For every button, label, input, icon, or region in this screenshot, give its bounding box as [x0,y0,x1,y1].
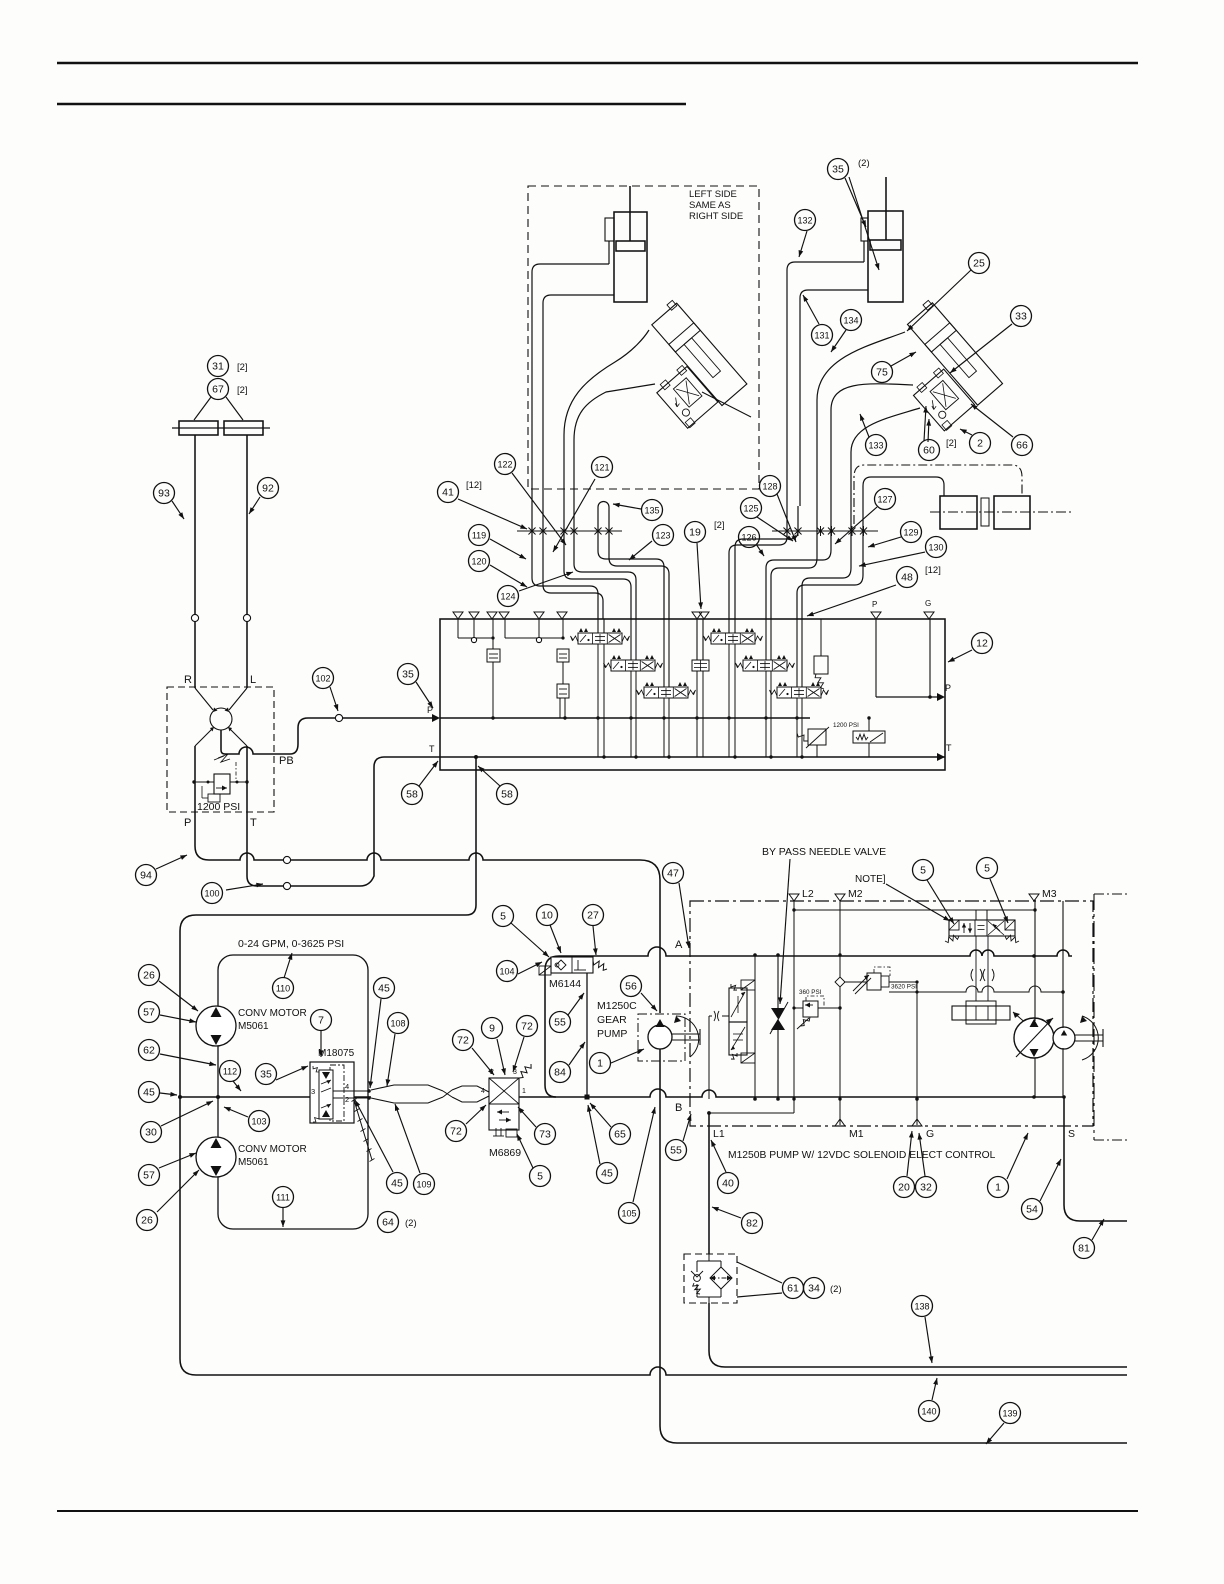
svg-text:L: L [250,674,256,686]
svg-text:67: 67 [212,383,224,395]
svg-text:1200 PSI: 1200 PSI [197,801,240,813]
svg-text:34: 34 [808,1282,820,1294]
svg-text:48: 48 [901,571,913,583]
svg-text:CONV MOTOR: CONV MOTOR [238,1144,307,1155]
svg-text:45: 45 [601,1167,613,1179]
svg-text:135: 135 [644,505,659,515]
svg-text:54: 54 [1026,1203,1038,1215]
svg-text:A: A [675,939,683,951]
svg-text:121: 121 [594,462,609,472]
svg-text:84: 84 [554,1066,566,1078]
svg-text:72: 72 [450,1125,462,1137]
svg-text:G: G [925,599,931,608]
svg-text:M5061: M5061 [238,1021,269,1032]
svg-text:35: 35 [260,1068,272,1080]
svg-text:T: T [429,744,435,754]
svg-text:138: 138 [914,1301,929,1311]
svg-text:35: 35 [402,668,414,680]
svg-text:M5061: M5061 [238,1157,269,1168]
svg-text:P: P [184,817,191,829]
svg-text:62: 62 [143,1044,155,1056]
svg-text:105: 105 [621,1208,636,1218]
svg-text:56: 56 [625,980,637,992]
svg-text:2: 2 [977,437,983,449]
svg-text:55: 55 [554,1016,566,1028]
svg-text:M2: M2 [848,888,863,900]
svg-text:119: 119 [472,530,486,540]
svg-text:[12]: [12] [925,565,941,576]
svg-text:9: 9 [489,1022,495,1034]
svg-text:73: 73 [539,1128,551,1140]
svg-text:1200 PSI: 1200 PSI [833,722,859,729]
svg-text:M18075: M18075 [318,1048,355,1059]
svg-text:45: 45 [143,1086,155,1098]
svg-text:104: 104 [499,966,514,976]
svg-text:10: 10 [541,909,553,921]
svg-text:G: G [926,1128,934,1140]
svg-text:94: 94 [140,869,152,881]
svg-text:4: 4 [345,1082,349,1091]
svg-text:5: 5 [537,1170,543,1182]
svg-text:40: 40 [722,1177,734,1189]
svg-text:2: 2 [345,1095,349,1104]
svg-text:27: 27 [587,909,599,921]
svg-text:65: 65 [614,1128,626,1140]
svg-text:3620 PSI: 3620 PSI [891,984,917,991]
svg-text:PB: PB [279,755,294,767]
svg-text:100: 100 [204,888,219,898]
svg-text:12: 12 [976,637,988,649]
svg-text:45: 45 [391,1177,403,1189]
svg-text:[12]: [12] [466,480,482,491]
svg-text:P: P [872,600,877,609]
svg-text:26: 26 [141,1214,153,1226]
svg-text:NOTE]: NOTE] [855,874,886,885]
svg-text:102: 102 [315,673,330,683]
svg-text:26: 26 [143,969,155,981]
svg-text:L2: L2 [802,888,814,900]
svg-text:139: 139 [1002,1408,1017,1418]
svg-text:126: 126 [741,532,756,542]
svg-text:81: 81 [1078,1242,1090,1254]
svg-text:M6144: M6144 [549,978,581,990]
svg-text:64: 64 [382,1216,394,1228]
svg-text:72: 72 [457,1034,469,1046]
svg-text:133: 133 [868,440,883,450]
svg-text:93: 93 [158,487,170,499]
svg-text:1: 1 [597,1057,603,1069]
svg-text:140: 140 [921,1406,936,1416]
svg-text:4: 4 [481,1088,485,1095]
svg-text:L1: L1 [713,1128,725,1140]
svg-text:58: 58 [501,788,513,800]
svg-text:[2]: [2] [714,520,725,531]
svg-text:58: 58 [406,788,418,800]
svg-text:M1: M1 [849,1128,864,1140]
svg-text:32: 32 [920,1181,932,1193]
svg-text:[2]: [2] [237,385,248,396]
svg-text:R: R [184,674,192,686]
svg-text:60: 60 [923,444,935,456]
svg-text:[2]: [2] [237,362,248,373]
svg-text:31: 31 [212,360,224,372]
svg-text:M3: M3 [1042,888,1057,900]
svg-text:132: 132 [797,215,812,225]
svg-text:5: 5 [500,910,506,922]
svg-text:GEAR: GEAR [597,1014,627,1026]
svg-text:PUMP: PUMP [597,1028,627,1040]
svg-text:0-24 GPM, 0-3625 PSI: 0-24 GPM, 0-3625 PSI [238,938,344,950]
svg-text:35: 35 [832,163,844,175]
svg-text:M1250B PUMP W/ 12VDC SOLENOID: M1250B PUMP W/ 12VDC SOLENOID ELECT CONT… [728,1150,996,1161]
svg-text:7: 7 [318,1014,324,1026]
svg-text:20: 20 [898,1181,910,1193]
svg-text:(2): (2) [405,1218,417,1229]
svg-text:(2): (2) [830,1284,842,1295]
svg-text:111: 111 [276,1192,290,1202]
svg-text:110: 110 [276,983,290,993]
svg-text:30: 30 [145,1126,157,1138]
svg-text:131: 131 [814,330,829,340]
svg-text:130: 130 [928,542,943,552]
svg-text:61: 61 [787,1282,799,1294]
svg-text:S: S [1068,1128,1075,1140]
svg-text:33: 33 [1015,310,1027,322]
svg-text:5: 5 [920,864,926,876]
svg-text:134: 134 [843,315,858,325]
svg-text:3: 3 [311,1087,315,1096]
svg-text:T: T [250,817,257,829]
svg-text:5: 5 [984,862,990,874]
svg-text:360 PSI: 360 PSI [799,989,822,996]
svg-text:122: 122 [497,459,512,469]
svg-text:LEFT SIDE: LEFT SIDE [689,189,737,200]
svg-text:CONV MOTOR: CONV MOTOR [238,1008,307,1019]
svg-text:109: 109 [416,1179,431,1189]
svg-text:128: 128 [762,481,777,491]
svg-text:M6869: M6869 [489,1147,521,1159]
svg-text:T: T [946,743,952,753]
svg-text:82: 82 [746,1217,758,1229]
svg-text:RIGHT SIDE: RIGHT SIDE [689,211,743,222]
svg-text:1: 1 [995,1181,1001,1193]
svg-text:25: 25 [973,257,985,269]
svg-text:55: 55 [670,1144,682,1156]
svg-text:108: 108 [390,1018,405,1028]
svg-text:B: B [675,1102,682,1114]
svg-text:72: 72 [521,1020,533,1032]
svg-text:M1250C: M1250C [597,1000,637,1012]
svg-text:57: 57 [143,1169,155,1181]
svg-text:75: 75 [876,366,888,378]
svg-text:127: 127 [877,494,892,504]
svg-text:120: 120 [471,556,486,566]
svg-text:92: 92 [262,482,274,494]
svg-text:103: 103 [251,1116,266,1126]
svg-text:19: 19 [689,526,701,538]
svg-text:(2): (2) [858,158,870,169]
svg-text:1: 1 [522,1088,526,1095]
svg-text:124: 124 [500,591,515,601]
svg-text:P: P [945,683,951,693]
svg-text:123: 123 [655,530,670,540]
svg-text:66: 66 [1016,439,1028,451]
svg-text:47: 47 [667,867,679,879]
svg-text:41: 41 [442,486,454,498]
svg-text:45: 45 [378,982,390,994]
svg-text:BY PASS NEEDLE VALVE: BY PASS NEEDLE VALVE [762,846,886,858]
svg-text:P: P [427,705,433,715]
svg-text:112: 112 [223,1066,237,1076]
svg-text:[2]: [2] [946,438,957,449]
svg-text:129: 129 [903,527,918,537]
svg-text:57: 57 [143,1006,155,1018]
svg-text:SAME AS: SAME AS [689,200,731,211]
svg-text:125: 125 [743,503,758,513]
